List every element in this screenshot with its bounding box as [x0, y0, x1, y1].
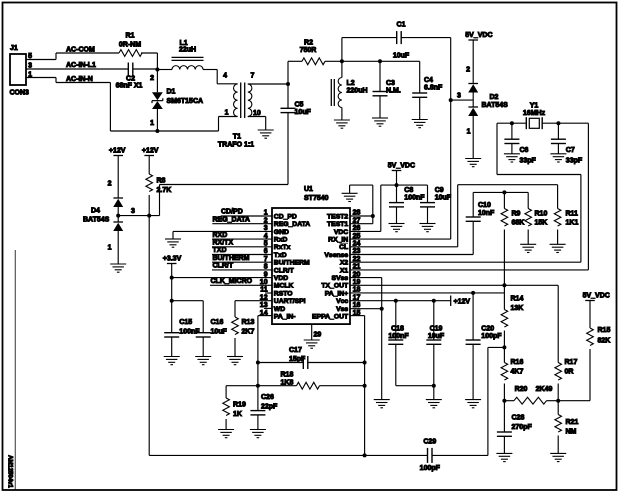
svg-text:10uF: 10uF — [295, 109, 312, 116]
svg-text:16: 16 — [353, 302, 361, 309]
svg-text:SM6T15CA: SM6T15CA — [167, 98, 204, 105]
svg-text:10uF: 10uF — [428, 333, 445, 340]
svg-text:RxD: RxD — [274, 237, 288, 244]
svg-text:2.7K: 2.7K — [157, 187, 172, 194]
svg-text:RXD: RXD — [213, 232, 228, 239]
svg-text:REG_DATA: REG_DATA — [274, 221, 310, 228]
svg-text:TxD: TxD — [274, 252, 287, 259]
svg-text:C1: C1 — [397, 22, 406, 29]
svg-text:VDD: VDD — [274, 275, 288, 282]
svg-text:CLK_MICRO: CLK_MICRO — [211, 278, 253, 285]
svg-text:R16: R16 — [511, 359, 524, 366]
svg-text:100nF: 100nF — [404, 195, 425, 202]
svg-text:5V_VDC: 5V_VDC — [583, 292, 610, 299]
svg-text:R15: R15 — [598, 327, 611, 334]
svg-text:NM: NM — [566, 429, 577, 436]
svg-text:R17: R17 — [565, 359, 578, 366]
svg-text:10uF: 10uF — [435, 195, 452, 202]
svg-text:R18: R18 — [281, 372, 294, 379]
svg-text:1K: 1K — [233, 411, 242, 418]
svg-text:U1: U1 — [304, 186, 313, 193]
svg-text:68nF X1: 68nF X1 — [116, 83, 143, 90]
svg-text:PA_IN-: PA_IN- — [274, 314, 296, 321]
svg-text:TX_OUT: TX_OUT — [321, 283, 349, 290]
svg-text:R19: R19 — [233, 402, 246, 409]
svg-text:PA_IN+: PA_IN+ — [325, 290, 349, 297]
svg-text:29: 29 — [314, 332, 322, 339]
svg-text:RxTx: RxTx — [274, 244, 291, 251]
svg-text:RX/TX: RX/TX — [213, 240, 234, 247]
svg-text:BU/THERM: BU/THERM — [213, 255, 250, 262]
svg-text:Y1: Y1 — [530, 103, 539, 110]
svg-text:REG_DATA: REG_DATA — [213, 216, 250, 223]
svg-text:UART/SPI: UART/SPI — [274, 298, 306, 305]
svg-text:R10: R10 — [535, 211, 548, 218]
svg-text:1K1: 1K1 — [566, 220, 579, 227]
svg-text:EPPA_OUT: EPPA_OUT — [312, 314, 349, 321]
svg-text:270pF: 270pF — [512, 424, 533, 431]
svg-text:Vsense: Vsense — [324, 252, 348, 259]
svg-text:CON3: CON3 — [10, 90, 30, 97]
svg-text:Vss: Vss — [336, 306, 348, 313]
svg-text:0R-NM: 0R-NM — [119, 42, 141, 49]
svg-text:4K7: 4K7 — [511, 369, 524, 376]
svg-text:25: 25 — [353, 233, 361, 240]
svg-text:J1: J1 — [10, 45, 18, 52]
svg-text:5V_VDC: 5V_VDC — [388, 162, 415, 169]
svg-text:4: 4 — [223, 73, 227, 80]
svg-text:VDC: VDC — [334, 229, 348, 236]
svg-text:X2: X2 — [340, 260, 349, 267]
svg-text:Vcc: Vcc — [336, 298, 348, 305]
svg-text:C20: C20 — [481, 326, 494, 333]
svg-text:13K: 13K — [511, 305, 524, 312]
svg-text:GND: GND — [274, 229, 289, 236]
svg-text:R9: R9 — [512, 211, 521, 218]
svg-text:CD/PD: CD/PD — [221, 209, 243, 216]
svg-text:C18: C18 — [391, 326, 404, 333]
svg-text:+12V: +12V — [454, 299, 471, 306]
svg-text:C16: C16 — [211, 319, 224, 326]
svg-text:7: 7 — [251, 73, 255, 80]
svg-text:10uF: 10uF — [211, 329, 228, 336]
svg-text:R8: R8 — [157, 178, 166, 185]
svg-text:MCLK: MCLK — [274, 283, 294, 290]
svg-text:6.8nF: 6.8nF — [424, 85, 443, 92]
svg-text:C7: C7 — [566, 147, 575, 154]
svg-text:R13: R13 — [242, 319, 255, 326]
svg-text:CL: CL — [339, 244, 348, 251]
svg-text:750R: 750R — [300, 47, 317, 54]
svg-text:33pF: 33pF — [566, 158, 583, 165]
svg-text:1: 1 — [225, 110, 229, 117]
svg-text:22uH: 22uH — [179, 47, 196, 54]
svg-text:TXD: TXD — [213, 247, 227, 254]
svg-text:BU/THERM: BU/THERM — [274, 260, 310, 267]
svg-text:AC-IN-N: AC-IN-N — [66, 76, 93, 83]
svg-text:C10: C10 — [478, 202, 491, 209]
svg-text:22pF: 22pF — [261, 404, 278, 411]
svg-text:AM12504v1: AM12504v1 — [6, 455, 12, 488]
svg-text:C8: C8 — [404, 187, 413, 194]
svg-text:R20: R20 — [515, 386, 528, 393]
svg-text:R21: R21 — [566, 419, 579, 426]
svg-text:C5: C5 — [295, 102, 304, 109]
svg-text:220uH: 220uH — [347, 88, 368, 95]
svg-text:CLR/T: CLR/T — [213, 263, 234, 270]
svg-text:C3: C3 — [386, 80, 395, 87]
svg-text:1: 1 — [150, 120, 154, 127]
svg-text:D1: D1 — [167, 89, 176, 96]
svg-text:L2: L2 — [347, 80, 355, 87]
svg-text:2: 2 — [466, 67, 470, 74]
svg-text:2K7: 2K7 — [242, 329, 255, 336]
svg-text:15pF: 15pF — [289, 356, 306, 363]
svg-text:1: 1 — [467, 129, 471, 136]
svg-text:C15: C15 — [179, 319, 192, 326]
svg-text:1: 1 — [108, 245, 112, 252]
svg-text:R2: R2 — [304, 40, 313, 47]
svg-text:1K8: 1K8 — [281, 380, 294, 387]
svg-text:82K: 82K — [598, 338, 611, 345]
svg-text:C2: C2 — [126, 76, 135, 83]
svg-text:2K49: 2K49 — [536, 386, 553, 393]
svg-text:SVss: SVss — [332, 275, 349, 282]
svg-text:TEST1: TEST1 — [327, 221, 348, 228]
svg-text:T1: T1 — [233, 134, 241, 141]
svg-text:C28: C28 — [512, 415, 525, 422]
svg-text:3: 3 — [457, 93, 461, 100]
svg-text:RSTO: RSTO — [274, 290, 293, 297]
svg-text:+12V: +12V — [109, 147, 126, 154]
svg-text:AC-COM: AC-COM — [66, 47, 95, 54]
svg-text:16MHz: 16MHz — [523, 110, 546, 117]
svg-text:68K: 68K — [512, 220, 525, 227]
svg-text:ST7540: ST7540 — [304, 195, 329, 202]
svg-text:C17: C17 — [289, 347, 302, 354]
svg-text:10uF: 10uF — [393, 53, 410, 60]
svg-text:0R: 0R — [565, 369, 574, 376]
svg-text:C6: C6 — [520, 147, 529, 154]
svg-text:BAT54S: BAT54S — [482, 102, 509, 109]
svg-text:100nF: 100nF — [179, 329, 200, 336]
svg-text:10: 10 — [253, 110, 261, 117]
svg-text:100pF: 100pF — [420, 465, 441, 472]
svg-text:R14: R14 — [511, 296, 524, 303]
svg-text:N.M.: N.M. — [386, 88, 401, 95]
svg-text:D4: D4 — [91, 208, 100, 215]
svg-text:BAT54S: BAT54S — [83, 217, 110, 224]
svg-text:5V_VDC: 5V_VDC — [465, 32, 492, 39]
svg-text:3: 3 — [131, 208, 135, 215]
svg-text:CD_PD: CD_PD — [274, 213, 297, 220]
svg-text:+12V: +12V — [142, 147, 159, 154]
svg-text:+3.3V: +3.3V — [163, 256, 182, 263]
svg-text:TEST2: TEST2 — [327, 213, 348, 220]
svg-text:2: 2 — [150, 75, 154, 82]
svg-text:AC-IN-L1: AC-IN-L1 — [66, 62, 96, 69]
svg-text:2: 2 — [108, 181, 112, 188]
svg-text:WD: WD — [274, 306, 285, 313]
svg-text:C4: C4 — [424, 77, 433, 84]
svg-text:100pF: 100pF — [481, 333, 502, 340]
svg-text:C29: C29 — [423, 439, 436, 446]
svg-text:CLR/T: CLR/T — [274, 267, 295, 274]
svg-text:10nF: 10nF — [478, 210, 495, 217]
svg-text:15K: 15K — [535, 220, 548, 227]
svg-text:D2: D2 — [490, 94, 499, 101]
svg-text:C9: C9 — [435, 187, 444, 194]
svg-text:TRAFO 1:1: TRAFO 1:1 — [218, 142, 254, 149]
svg-text:100nF: 100nF — [388, 333, 409, 340]
svg-text:C19: C19 — [430, 326, 443, 333]
svg-text:3: 3 — [28, 62, 32, 69]
svg-text:X1: X1 — [340, 267, 349, 274]
svg-text:R1: R1 — [126, 33, 135, 40]
svg-text:33pF: 33pF — [520, 158, 537, 165]
svg-text:RX_IN: RX_IN — [328, 237, 348, 244]
svg-text:R11: R11 — [566, 211, 579, 218]
svg-text:C26: C26 — [261, 394, 274, 401]
